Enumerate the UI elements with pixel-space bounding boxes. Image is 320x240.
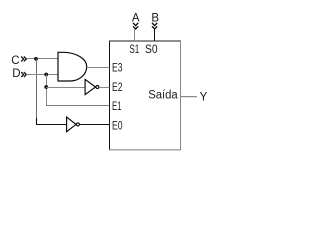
svg-text:E0: E0 (112, 121, 123, 133)
svg-text:D: D (12, 68, 20, 80)
wire C branch down (36, 59, 38, 119)
svg-text:Saída: Saída (148, 90, 178, 102)
input B chevron (152, 23, 157, 29)
svg-text:E1: E1 (112, 101, 122, 113)
mux box U1 (109, 41, 181, 151)
wire C to AND input (27, 58, 59, 60)
wire D branch down (46, 75, 48, 106)
wire AND output to E3 (87, 67, 110, 69)
wire B to S0 (154, 30, 156, 42)
svg-text:C: C (11, 55, 19, 67)
wire A to S1 (134, 30, 136, 42)
wire C branch corner to inverter U3 (37, 118, 67, 125)
svg-text:Y: Y (200, 92, 208, 104)
input A chevron (133, 23, 138, 29)
svg-text:S1: S1 (129, 44, 139, 56)
input D chevron (21, 72, 26, 77)
svg-text:E2: E2 (112, 82, 123, 94)
input C chevron (21, 57, 26, 62)
inverter U2 (E2) (85, 79, 95, 94)
node on C wire (34, 57, 38, 61)
svg-text:E3: E3 (112, 63, 123, 75)
wire to inverter U2 (46, 87, 85, 89)
wire inverter U2 to E2 (99, 87, 110, 89)
AND gate (58, 52, 87, 81)
svg-text:A: A (132, 13, 140, 25)
wire inverter U3 to E0 (80, 124, 110, 126)
inverter U3 (E0) (67, 117, 76, 132)
wire Saida to Y (181, 96, 198, 98)
wire D branch to E1 (46, 105, 110, 107)
node on D wire (44, 73, 48, 77)
svg-text:S0: S0 (145, 44, 158, 56)
wire D to AND input (27, 74, 59, 76)
node on E2 input (44, 85, 48, 89)
